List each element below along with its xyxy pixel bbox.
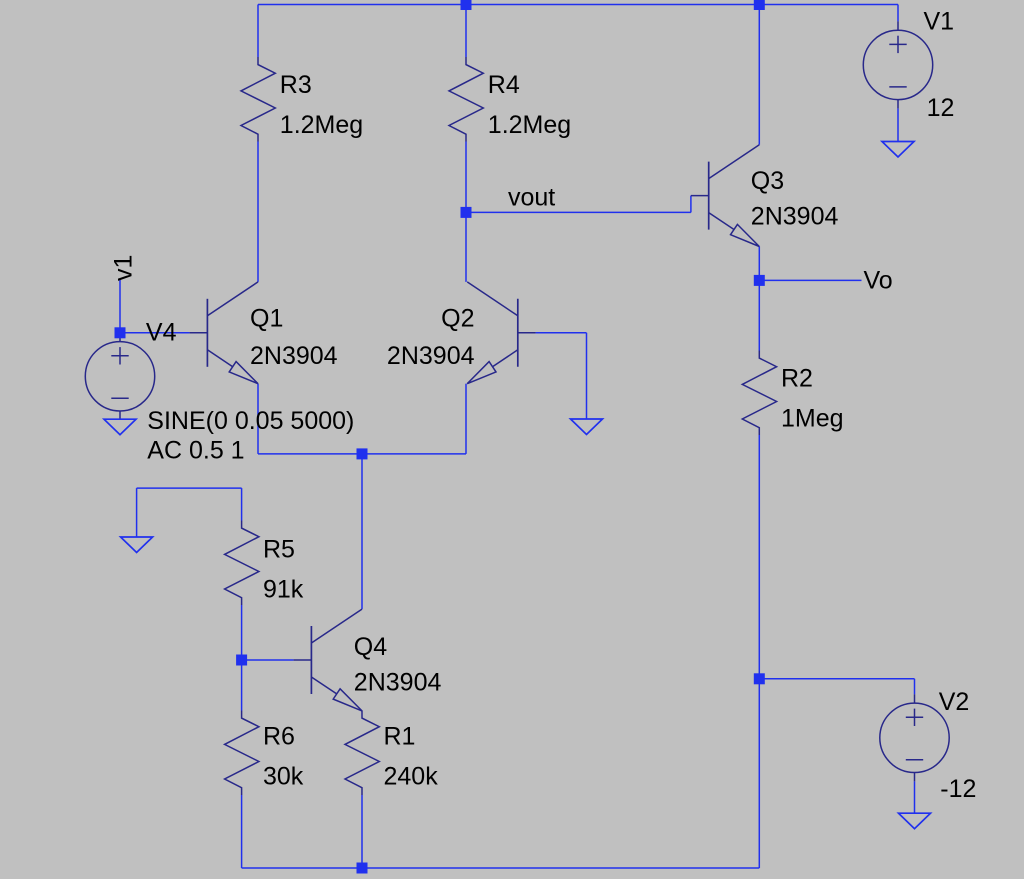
svg-text:2N3904: 2N3904 bbox=[751, 202, 839, 230]
transistor Q4 bbox=[294, 609, 362, 711]
svg-text:Q2: Q2 bbox=[441, 305, 474, 333]
transistor Q2 bbox=[467, 282, 535, 384]
resistor R2 bbox=[742, 351, 776, 436]
voltage source V1 bbox=[863, 21, 932, 108]
wire Vo stub bbox=[759, 279, 861, 281]
wire R6 bottom drop bbox=[241, 795, 243, 868]
voltage source V2 bbox=[880, 694, 949, 781]
wire net v1 stub bbox=[119, 280, 121, 333]
svg-text:2N3904: 2N3904 bbox=[354, 669, 442, 697]
svg-text:AC 0.5 1: AC 0.5 1 bbox=[147, 436, 244, 464]
svg-text:V4: V4 bbox=[146, 319, 177, 347]
node junction bbox=[461, 0, 472, 10]
resistor R1 bbox=[345, 711, 379, 796]
svg-text:Q4: Q4 bbox=[354, 633, 387, 661]
svg-text:SINE(0 0.05 5000): SINE(0 0.05 5000) bbox=[147, 407, 354, 435]
node Vo junction bbox=[754, 275, 765, 286]
wire top rail bbox=[258, 4, 898, 6]
wire Q4 base left bbox=[242, 659, 294, 661]
wire V1 bottom to ground bbox=[897, 108, 899, 141]
svg-text:1Meg: 1Meg bbox=[781, 405, 844, 433]
voltage source V4 bbox=[85, 333, 154, 420]
svg-text:V2: V2 bbox=[939, 688, 970, 716]
wire R5 ground drop bbox=[136, 488, 138, 537]
svg-text:R4: R4 bbox=[488, 71, 520, 99]
wire Q3 base jog bbox=[690, 196, 692, 213]
node tail junction bbox=[357, 448, 368, 459]
wire bottom rail bbox=[242, 867, 760, 869]
svg-text:Q3: Q3 bbox=[751, 167, 784, 195]
wire Q2 base to ground bbox=[586, 333, 588, 419]
svg-text:1.2Meg: 1.2Meg bbox=[488, 111, 571, 139]
wire R3 top bbox=[257, 5, 259, 58]
wire vout to Q3 base bbox=[466, 211, 691, 213]
wire junction to R6 top bbox=[241, 660, 243, 711]
transistor Q3 bbox=[691, 145, 759, 247]
svg-text:V1: V1 bbox=[924, 8, 955, 36]
wire V2 bottom to ground bbox=[914, 781, 916, 813]
wire Q2 base right bbox=[536, 332, 587, 334]
wire R4 top bbox=[465, 5, 467, 58]
node junction bbox=[754, 0, 765, 10]
wire V1 top drop bbox=[897, 5, 899, 22]
svg-text:R5: R5 bbox=[263, 536, 295, 564]
svg-text:R2: R2 bbox=[781, 365, 813, 393]
resistor R3 bbox=[241, 57, 275, 142]
wire Q3 collector to rail bbox=[758, 5, 760, 145]
svg-text:2N3904: 2N3904 bbox=[250, 342, 338, 370]
wire R3 bottom to Q1 collector bbox=[257, 142, 259, 282]
wire Q3 emitter to R2 bbox=[758, 247, 760, 351]
svg-text:Q1: Q1 bbox=[250, 305, 283, 333]
resistor R5 bbox=[225, 521, 259, 606]
resistor R4 bbox=[449, 57, 483, 142]
svg-text:2N3904: 2N3904 bbox=[387, 342, 475, 370]
node bottom junction bbox=[357, 863, 368, 874]
transistor Q1 bbox=[190, 282, 258, 384]
svg-text:R6: R6 bbox=[263, 723, 295, 751]
svg-text:1.2Meg: 1.2Meg bbox=[280, 111, 363, 139]
ground bbox=[899, 813, 931, 829]
wire Q1 emitter down bbox=[257, 384, 259, 454]
wire V2 branch horizontal bbox=[759, 678, 914, 680]
node vout junction bbox=[461, 207, 472, 218]
wire R4 bottom to Q2 collector bbox=[465, 142, 467, 282]
svg-text:Vo: Vo bbox=[864, 267, 893, 295]
svg-text:-12: -12 bbox=[940, 775, 976, 803]
wire R5 bottom to junction bbox=[241, 605, 243, 660]
svg-text:91k: 91k bbox=[263, 576, 304, 604]
wire R5 ground horizontal bbox=[137, 487, 242, 489]
ground bbox=[104, 419, 136, 435]
ground bbox=[882, 142, 914, 158]
node v1 junction bbox=[115, 327, 126, 338]
wire tail to Q4 collector bbox=[361, 454, 363, 609]
svg-text:vout: vout bbox=[508, 184, 555, 212]
svg-text:240k: 240k bbox=[384, 763, 439, 791]
wire R5 top stub bbox=[241, 488, 243, 520]
svg-text:v1: v1 bbox=[110, 255, 138, 281]
ground bbox=[121, 537, 153, 553]
wire tail horizontal bbox=[258, 453, 466, 455]
wire R1 bottom drop bbox=[361, 795, 363, 868]
svg-text:R1: R1 bbox=[384, 723, 416, 751]
ground bbox=[571, 419, 603, 435]
svg-text:R3: R3 bbox=[280, 71, 312, 99]
wire V4 to Q1 base bbox=[120, 332, 190, 334]
node V2 junction bbox=[754, 673, 765, 684]
wire V2 top stub bbox=[914, 679, 916, 695]
svg-text:30k: 30k bbox=[263, 763, 304, 791]
wire Q2 emitter up bbox=[465, 384, 467, 454]
wire R2 bottom to bottom rail bbox=[758, 435, 760, 868]
node Q4 base junction bbox=[236, 655, 247, 666]
svg-text:12: 12 bbox=[927, 94, 955, 122]
resistor R6 bbox=[225, 711, 259, 796]
